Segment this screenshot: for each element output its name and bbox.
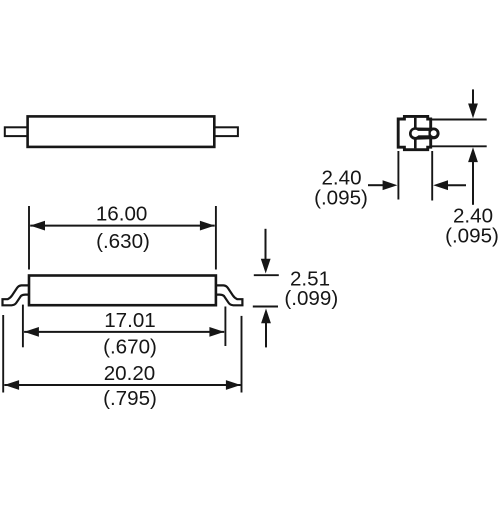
dim 17.01 right arrowhead [209,327,224,337]
dim 2.40 vertical bottom arrowhead [468,147,478,162]
dim 2.40 horizontal left arrowhead [383,180,398,190]
side view right gull-wing lead [215,285,243,305]
dim 17.01 right extension line [224,307,226,347]
dim 2.51 top extension line [254,274,279,276]
svg-text:17.01: 17.01 [104,309,156,332]
end view right lobe bore [431,130,437,136]
svg-text:20.20: 20.20 [104,362,156,385]
end view blade channel [414,131,429,135]
dim 2.51 top arrowhead [261,259,271,274]
dim 2.40 vertical bottom arrow line [472,160,474,205]
dim 2.40 vertical top arrowhead [468,104,478,119]
dim 17.01 left extension line [22,305,24,348]
svg-text:(.099): (.099) [284,287,338,310]
dim 20.20 right extension line [241,316,243,393]
svg-text:(.095): (.095) [314,186,368,209]
dim 20.20 line [4,384,240,386]
svg-text:(.630): (.630) [96,230,150,253]
svg-text:(.795): (.795) [103,387,157,410]
svg-text:16.00: 16.00 [96,203,148,226]
end view contact capsule right lobe [428,127,440,139]
dim 2.40 horizontal left extension line [397,151,399,200]
end view divider line [414,118,417,149]
axial view left lead [5,127,29,136]
dim 2.40 horizontal right extension line [431,151,433,201]
side view left gull-wing lead [3,285,31,305]
dim 2.51 bottom arrow line [265,322,267,347]
axial view body [28,116,215,146]
side view body [29,276,216,306]
dim 2.40 vertical top arrow line [472,89,474,106]
dim 20.20 left arrowhead [4,380,19,390]
dim 2.40 horizontal right arrowhead [433,180,448,190]
svg-text:(.670): (.670) [103,336,157,359]
dim 2.51 bottom arrowhead [261,309,271,324]
dim 2.40 vertical bottom extension line [432,145,487,147]
dim 2.51 bottom extension line [253,306,278,308]
end view left lobe bore [412,130,419,137]
dim 20.20 left extension line [2,315,4,393]
end view contact capsule left lobe [409,127,422,140]
axial view right lead [214,127,238,136]
dim 17.01 left arrowhead [24,327,39,337]
dim 20.20 right arrowhead [226,380,241,390]
dim 16.00 left extension line [28,206,30,270]
end view outline [398,116,431,149]
dim 17.01 line [24,331,224,333]
end view contact capsule bridge [415,128,433,140]
dim 2.40 horizontal right arrow line [446,184,466,186]
svg-text:(.095): (.095) [445,225,499,248]
dim 2.51 top arrow line [265,229,267,261]
dim 16.00 line [30,225,215,227]
dim 16.00 right extension line [215,206,217,270]
dim 2.40 horizontal left arrow line [368,184,384,186]
dim 2.40 vertical top extension line [432,119,487,121]
dim 16.00 left arrowhead [30,221,45,231]
dim 16.00 right arrowhead [200,221,215,231]
